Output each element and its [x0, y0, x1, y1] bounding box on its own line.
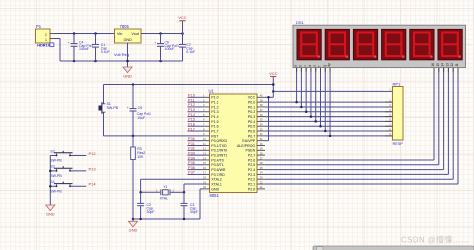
svg-text:P1.1: P1.1 [211, 101, 218, 105]
svg-text:+: + [68, 41, 70, 45]
svg-text:100uF: 100uF [165, 47, 175, 51]
svg-text:f: f [318, 66, 322, 67]
svg-text:Volt Reg: Volt Reg [114, 52, 129, 57]
svg-text:P0.6: P0.6 [248, 129, 255, 133]
svg-text:15: 15 [436, 63, 440, 67]
svg-text:g: g [322, 65, 326, 67]
svg-text:Y1: Y1 [163, 185, 167, 189]
svg-text:P2.6: P2.6 [248, 158, 255, 162]
svg-text:P1: P1 [36, 24, 42, 29]
svg-text:P3.6/WR: P3.6/WR [211, 168, 226, 172]
svg-text:XTAL: XTAL [160, 197, 169, 201]
svg-text:P11: P11 [188, 98, 195, 102]
svg-text:37: 37 [260, 108, 263, 112]
svg-text:19: 19 [203, 180, 206, 184]
svg-text:P2.7: P2.7 [248, 154, 255, 158]
svg-text:21: 21 [260, 185, 263, 189]
svg-text:11: 11 [455, 63, 459, 67]
svg-text:+: + [127, 106, 129, 110]
svg-text:P3.4/T0: P3.4/T0 [211, 158, 223, 162]
svg-text:XTAL2: XTAL2 [211, 178, 222, 182]
svg-text:P0.2: P0.2 [248, 110, 255, 114]
svg-text:25: 25 [260, 166, 263, 170]
svg-text:P1.2: P1.2 [211, 105, 218, 109]
svg-text:23: 23 [260, 176, 263, 180]
svg-text:PSEN: PSEN [246, 149, 256, 153]
svg-text:S3: S3 [50, 165, 54, 169]
svg-text:SW-PB: SW-PB [50, 189, 62, 193]
svg-text:S2: S2 [50, 149, 54, 153]
svg-text:GND: GND [129, 228, 138, 233]
svg-text:2: 2 [45, 33, 47, 37]
svg-text:P10: P10 [188, 94, 195, 98]
svg-text:Vin: Vin [117, 32, 122, 36]
svg-text:P32: P32 [188, 147, 195, 151]
svg-text:dp: dp [327, 63, 331, 67]
svg-text:P35: P35 [188, 161, 195, 165]
svg-text:P12: P12 [188, 103, 195, 107]
svg-text:27: 27 [260, 156, 263, 160]
svg-text:SW-PB: SW-PB [50, 174, 62, 178]
svg-text:P1.6: P1.6 [211, 125, 218, 129]
svg-text:P37: P37 [188, 171, 195, 175]
svg-text:SW-PB: SW-PB [107, 106, 119, 110]
svg-text:VCC: VCC [248, 96, 256, 100]
svg-text:a: a [294, 65, 298, 67]
svg-text:39: 39 [260, 98, 263, 102]
svg-text:P2.4: P2.4 [248, 168, 255, 172]
svg-text:P17: P17 [188, 127, 195, 131]
svg-text:P2.3: P2.3 [248, 173, 255, 177]
svg-text:P1.0: P1.0 [211, 96, 218, 100]
svg-text:P0.1: P0.1 [248, 105, 255, 109]
svg-text:38: 38 [260, 103, 263, 107]
svg-text:P2.5: P2.5 [248, 163, 255, 167]
svg-text:18: 18 [203, 176, 206, 180]
svg-text:CSDN @懵懂……: CSDN @懵懂…… [401, 234, 469, 244]
svg-text:16: 16 [203, 166, 206, 170]
svg-text:P30: P30 [188, 137, 195, 141]
svg-text:P1.5: P1.5 [211, 120, 218, 124]
svg-text:10: 10 [203, 137, 206, 141]
svg-text:P14: P14 [89, 182, 97, 187]
svg-text:Vout: Vout [131, 32, 140, 36]
svg-text:24: 24 [260, 171, 263, 175]
svg-text:0.1uF: 0.1uF [101, 50, 110, 54]
svg-text:e: e [313, 65, 317, 67]
svg-text:S4: S4 [50, 180, 54, 184]
svg-text:30pF: 30pF [190, 210, 198, 214]
svg-text:35: 35 [260, 118, 263, 122]
svg-text:0.1uF: 0.1uF [186, 50, 195, 54]
svg-text:7805: 7805 [120, 24, 130, 29]
svg-text:P12: P12 [89, 151, 97, 156]
svg-text:P14: P14 [188, 113, 196, 117]
svg-text:P3.5/T1: P3.5/T1 [211, 163, 223, 167]
svg-text:15: 15 [203, 161, 206, 165]
svg-text:P1.3: P1.3 [211, 110, 218, 114]
svg-text:P3.2/INT0: P3.2/INT0 [211, 149, 227, 153]
svg-text:GND: GND [211, 187, 219, 191]
svg-text:P2.1: P2.1 [248, 182, 255, 186]
svg-text:P0.4: P0.4 [248, 120, 255, 124]
svg-text:GND: GND [123, 38, 132, 42]
svg-text:12: 12 [203, 147, 206, 151]
svg-text:28: 28 [260, 151, 263, 155]
svg-text:14: 14 [441, 63, 445, 67]
svg-text:P15: P15 [188, 118, 195, 122]
svg-text:P0.5: P0.5 [248, 125, 255, 129]
svg-text:26: 26 [260, 161, 263, 165]
svg-text:20: 20 [203, 185, 206, 189]
svg-text:d: d [308, 65, 312, 67]
svg-text:P3.1/TXD: P3.1/TXD [211, 144, 227, 148]
svg-text:+: + [154, 41, 156, 45]
svg-text:C5: C5 [138, 106, 143, 110]
svg-text:P3.0/RXD: P3.0/RXD [211, 139, 227, 143]
svg-text:P3.7/RD: P3.7/RD [211, 173, 225, 177]
svg-text:40: 40 [260, 94, 263, 98]
svg-text:ALE/PROG: ALE/PROG [237, 144, 255, 148]
svg-text:30pF: 30pF [147, 210, 155, 214]
svg-text:17: 17 [203, 171, 206, 175]
svg-text:33: 33 [260, 127, 263, 131]
svg-text:10uF: 10uF [137, 116, 145, 120]
svg-text:RESP: RESP [393, 142, 404, 146]
svg-text:P36: P36 [188, 166, 195, 170]
svg-text:GND: GND [46, 211, 55, 216]
svg-text:1: 1 [45, 38, 47, 42]
svg-text:10K: 10K [137, 155, 144, 159]
svg-text:P2.2: P2.2 [248, 178, 255, 182]
svg-text:P13: P13 [89, 166, 97, 171]
svg-text:DS1: DS1 [296, 20, 305, 25]
svg-text:P2.0: P2.0 [248, 187, 255, 191]
svg-text:P3.3/INT1: P3.3/INT1 [211, 154, 227, 158]
svg-text:8051: 8051 [210, 193, 220, 198]
svg-text:GND: GND [123, 73, 132, 78]
svg-text:34: 34 [260, 123, 263, 127]
svg-text:VCC: VCC [269, 71, 278, 76]
svg-text:16: 16 [431, 63, 435, 67]
svg-text:31: 31 [260, 137, 263, 141]
svg-text:36: 36 [260, 113, 263, 117]
svg-text:RST: RST [211, 134, 219, 138]
svg-text:SW-PB: SW-PB [50, 159, 62, 163]
svg-text:U1: U1 [209, 89, 215, 94]
svg-text:VCC: VCC [178, 15, 187, 20]
svg-text:b: b [298, 65, 302, 67]
svg-text:100uF: 100uF [79, 47, 89, 51]
svg-text:22: 22 [260, 180, 263, 184]
svg-text:P34: P34 [188, 156, 196, 160]
svg-text:P13: P13 [188, 108, 195, 112]
svg-text:14: 14 [203, 156, 206, 160]
svg-text:P1.4: P1.4 [211, 115, 218, 119]
svg-text:P33: P33 [188, 151, 195, 155]
svg-text:13: 13 [445, 63, 449, 67]
svg-text:P1.7: P1.7 [211, 129, 218, 133]
svg-text:XTAL1: XTAL1 [211, 182, 222, 186]
svg-text:RP1: RP1 [393, 82, 402, 87]
svg-text:P0.0: P0.0 [248, 101, 255, 105]
svg-text:32: 32 [260, 132, 263, 136]
svg-text:12: 12 [450, 63, 454, 67]
svg-text:30: 30 [260, 142, 263, 146]
svg-text:13: 13 [203, 151, 206, 155]
svg-text:P16: P16 [188, 123, 195, 127]
svg-text:EA/VPP: EA/VPP [242, 139, 255, 143]
svg-text:29: 29 [260, 147, 263, 151]
svg-text:P31: P31 [188, 142, 195, 146]
svg-text:P0.7: P0.7 [248, 134, 255, 138]
svg-text:P0.3: P0.3 [248, 115, 255, 119]
